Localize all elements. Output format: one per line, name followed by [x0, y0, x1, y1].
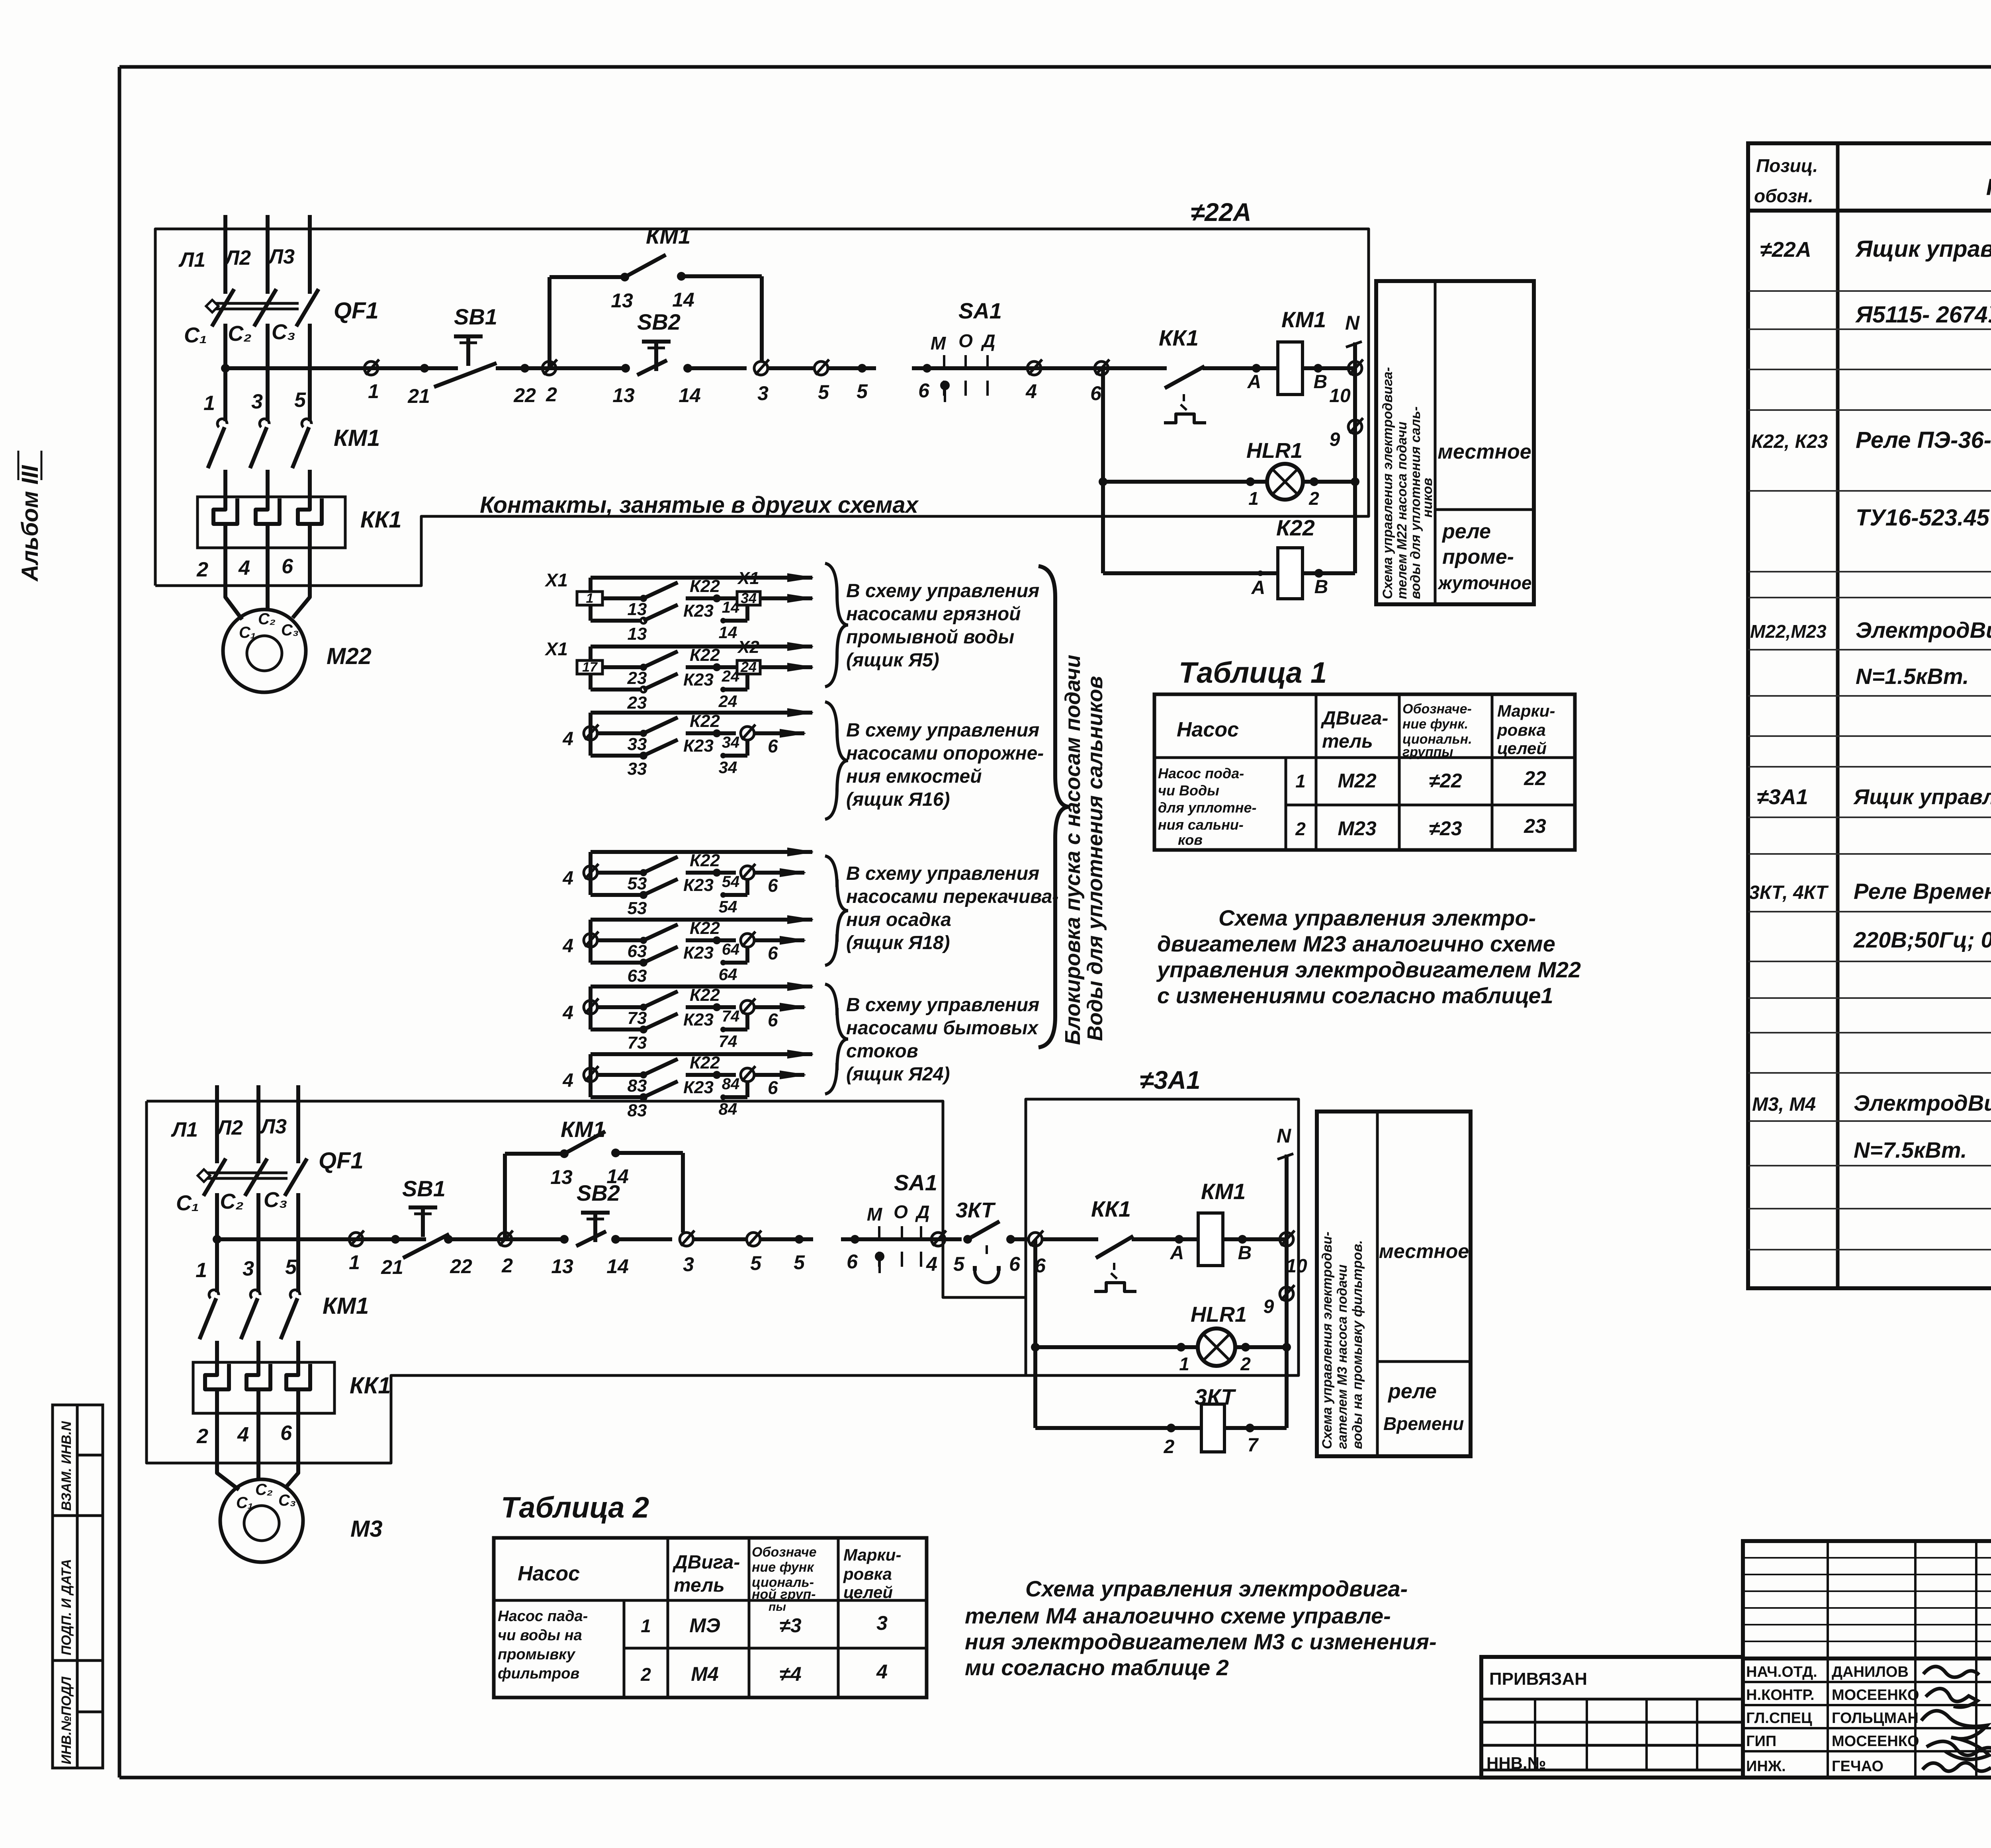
- brace groups 53/63: [825, 856, 848, 965]
- signal lamp HLR1: [1103, 439, 1359, 509]
- wire group 13 top output: [591, 574, 813, 582]
- svg-text:КМ1: КМ1: [561, 1117, 605, 1142]
- svg-text:C₂: C₂: [228, 322, 252, 346]
- svg-text:МОСЕЕНКО: МОСЕЕНКО: [1832, 1733, 1919, 1750]
- node 13 (SB2): [612, 364, 635, 406]
- svg-text:К22: К22: [690, 1053, 720, 1072]
- svg-text:74: 74: [719, 1032, 737, 1051]
- pushbutton SB2 (start): [637, 309, 681, 375]
- svg-text:телем М4 аналогично схеме упра: телем М4 аналогично схеме управле-: [965, 1603, 1391, 1628]
- svg-text:SB2: SB2: [637, 309, 681, 334]
- svg-text:SA1: SA1: [894, 1170, 937, 1195]
- relay contact K22 53: [621, 851, 739, 893]
- terminal 6 (group 33): [741, 725, 806, 756]
- svg-text:1: 1: [1248, 488, 1259, 509]
- svg-text:ние функ.: ние функ.: [1402, 717, 1468, 732]
- labels 1 3 5 (pole terminals): [203, 389, 306, 415]
- timer coil 3KT: [1035, 1384, 1287, 1457]
- svg-text:≠4: ≠4: [779, 1663, 801, 1685]
- svg-text:N: N: [1345, 312, 1360, 334]
- thermal relay KK1 heaters (circuit 2): [193, 1362, 391, 1413]
- svg-text:N=1.5кВт.: N=1.5кВт.: [1856, 664, 1969, 689]
- svg-text:проме-: проме-: [1442, 545, 1514, 568]
- note: M23 scheme similar to M22: [1156, 905, 1581, 1008]
- svg-text:ПРИВЯЗАН: ПРИВЯЗАН: [1489, 1669, 1587, 1689]
- svg-text:4: 4: [562, 1070, 573, 1091]
- pushbutton SB2 (c2): [576, 1180, 620, 1246]
- svg-text:2: 2: [1240, 1354, 1251, 1374]
- svg-text:Н.КОНТР.: Н.КОНТР.: [1746, 1687, 1815, 1703]
- svg-text:телем М22 насоса подачи: телем М22 насоса подачи: [1394, 422, 1410, 599]
- spec row: box #22A: [1760, 236, 1991, 328]
- svg-text:5: 5: [857, 380, 868, 402]
- svg-text:54: 54: [722, 873, 740, 891]
- terminal 4 (group 63): [562, 932, 621, 957]
- svg-text:ников: ников: [1420, 478, 1435, 518]
- svg-text:84: 84: [722, 1075, 740, 1093]
- wire group 73 left rail: [589, 987, 593, 1029]
- svg-text:ровка: ровка: [843, 1565, 892, 1583]
- svg-text:КК1: КК1: [1159, 325, 1199, 350]
- spec row: box #3A1: [1757, 782, 1991, 809]
- wire group 23 top output: [591, 643, 813, 651]
- annotation: to tank emptying pumps (box Я16): [846, 720, 1044, 810]
- svg-text:В: В: [1314, 371, 1328, 393]
- svg-text:К23: К23: [683, 943, 714, 963]
- svg-text:4: 4: [926, 1253, 937, 1275]
- svg-text:73: 73: [628, 1008, 647, 1028]
- svg-text:Блокировка пуска с насосам: Блокировка пуска с насосам подачи: [1061, 655, 1085, 1045]
- svg-text:≠22: ≠22: [1429, 770, 1462, 792]
- specification table grid: [1748, 143, 1991, 1288]
- svg-text:13: 13: [612, 384, 635, 406]
- contactor coil KM1 (c2): [1198, 1179, 1246, 1266]
- wire group 23 left rail: [589, 647, 593, 690]
- left margin stamp boxes (ВЗАМ.ИНВ.N / ПОДП. И ДАТА / ИНВ.№ПОДЛ): [53, 1405, 103, 1768]
- svg-text:Контакты, занятые в других схе: Контакты, занятые в других схемах: [480, 492, 919, 518]
- labels 2 4 6 (KK1 output): [196, 555, 293, 581]
- svg-text:C₂: C₂: [220, 1190, 244, 1213]
- svg-text:Насос пода-: Насос пода-: [1158, 765, 1244, 781]
- svg-text:13: 13: [611, 289, 633, 312]
- svg-text:33: 33: [628, 735, 647, 754]
- svg-text:2: 2: [640, 1664, 651, 1685]
- svg-text:63: 63: [628, 942, 647, 961]
- svg-text:X1: X1: [737, 568, 759, 588]
- table 1: [1154, 694, 1575, 850]
- wire group 53 left rail: [589, 852, 593, 895]
- brace groups 13/23: [825, 563, 848, 687]
- svg-text:КК1: КК1: [1091, 1196, 1131, 1221]
- svg-text:К22: К22: [690, 645, 720, 665]
- wire control line c2 segment 1: [217, 1237, 426, 1241]
- svg-text:К23: К23: [683, 670, 714, 690]
- spec row: time relays 3KT 4KT: [1749, 856, 1991, 957]
- svg-text:Ящик управления: Ящик управления: [1855, 236, 1991, 262]
- svg-text:C₃: C₃: [264, 1188, 288, 1212]
- svg-text:ДАНИЛОВ: ДАНИЛОВ: [1832, 1664, 1909, 1680]
- wire KK1 to motor M22: [225, 548, 310, 619]
- wire poles to KM1 (circuit 2): [217, 1239, 298, 1292]
- svg-text:C₃: C₃: [278, 1492, 296, 1509]
- wire control line segment 2: [496, 364, 627, 373]
- svg-text:Альбом III: Альбом III: [17, 465, 43, 582]
- svg-text:ние функ: ние функ: [752, 1560, 814, 1575]
- annotation: to sludge transfer pumps (box Я18): [846, 863, 1058, 953]
- svg-text:2: 2: [1308, 488, 1319, 509]
- svg-text:34: 34: [722, 734, 740, 751]
- svg-text:М22: М22: [327, 643, 372, 669]
- annotation: to dirty wash water pumps (box Я5): [846, 580, 1039, 671]
- svg-text:Д: Д: [915, 1201, 929, 1222]
- svg-text:Марки-: Марки-: [843, 1545, 901, 1564]
- wire KK1 contact to KM1 coil: [1203, 364, 1278, 393]
- node 5 (c2): [794, 1235, 805, 1274]
- node control tap (circuit 2): [213, 1235, 221, 1244]
- svg-text:14: 14: [679, 384, 701, 406]
- svg-text:3: 3: [757, 382, 769, 404]
- svg-text:Л2: Л2: [223, 246, 251, 270]
- svg-text:насосами опорожне-: насосами опорожне-: [846, 743, 1044, 764]
- svg-text:Позиц.: Позиц.: [1756, 155, 1818, 176]
- svg-text:М: М: [931, 333, 947, 354]
- wire feeder L3: [308, 215, 312, 293]
- svg-text:5: 5: [285, 1256, 297, 1279]
- svg-text:М3: М3: [350, 1516, 383, 1542]
- svg-text:4: 4: [562, 868, 573, 889]
- label #22A: [1191, 198, 1252, 227]
- contactor KM1 main contacts (circuit 2): [199, 1290, 369, 1342]
- svg-text:Л2: Л2: [215, 1116, 243, 1139]
- svg-text:Ящик управления Я5115-3274УХ: Ящик управления Я5115-3274УХЛ4: [1853, 785, 1991, 809]
- svg-text:≠3А1: ≠3А1: [1140, 1066, 1201, 1094]
- svg-text:1: 1: [1179, 1354, 1189, 1374]
- brace group 33: [825, 702, 848, 819]
- svg-text:реле: реле: [1441, 520, 1491, 543]
- svg-text:6: 6: [1009, 1253, 1021, 1275]
- svg-text:пы: пы: [769, 1600, 786, 1614]
- svg-text:КМ1: КМ1: [334, 425, 380, 451]
- relay coil K22: [1103, 515, 1355, 599]
- labels C1 C2 C3 (circuit 2): [176, 1188, 288, 1215]
- labels 1 3 5 (circuit 2 poles): [196, 1256, 297, 1282]
- svg-text:2: 2: [501, 1254, 513, 1277]
- node 21 (c2): [381, 1235, 403, 1278]
- svg-text:≠22А: ≠22А: [1760, 238, 1811, 262]
- terminal 6 (group 73): [741, 998, 806, 1030]
- svg-text:≠3: ≠3: [779, 1614, 801, 1637]
- svg-text:5: 5: [953, 1253, 965, 1275]
- svg-text:КМ1: КМ1: [323, 1293, 369, 1319]
- svg-text:2: 2: [1164, 1436, 1175, 1457]
- node 14 (SB2): [679, 364, 747, 406]
- node 5: [857, 364, 868, 402]
- svg-text:Схема управления электродвига-: Схема управления электродвига-: [1380, 367, 1395, 599]
- cabinet box #22A outline: [155, 229, 1369, 586]
- svg-text:чи воды на: чи воды на: [498, 1627, 582, 1644]
- node 14 (c2): [606, 1235, 672, 1278]
- svg-text:В: В: [1314, 576, 1328, 598]
- svg-text:1: 1: [586, 591, 594, 606]
- svg-text:ДВига-: ДВига-: [1320, 708, 1388, 729]
- svg-text:с изменениями согласно таблице: с изменениями согласно таблице1: [1157, 983, 1553, 1008]
- svg-text:C₃: C₃: [272, 320, 295, 344]
- svg-text:МЭ: МЭ: [689, 1614, 720, 1637]
- svg-text:М: М: [867, 1204, 883, 1225]
- table 2: [494, 1538, 927, 1698]
- svg-text:В схему управления: В схему управления: [846, 994, 1039, 1016]
- svg-text:1: 1: [1295, 771, 1306, 791]
- svg-text:Реле ПЭ-36-180У3, 220В, 50Гц,: Реле ПЭ-36-180У3, 220В, 50Гц,: [1856, 427, 1991, 453]
- svg-text:≠22А: ≠22А: [1191, 198, 1252, 227]
- svg-text:X2: X2: [737, 637, 759, 657]
- svg-text:54: 54: [719, 897, 737, 916]
- svg-text:6: 6: [1090, 382, 1102, 404]
- svg-text:КК1: КК1: [350, 1373, 391, 1399]
- svg-text:34: 34: [719, 758, 737, 777]
- terminal 3: [754, 359, 814, 404]
- svg-text:КМ1: КМ1: [646, 223, 690, 248]
- svg-text:2: 2: [196, 1425, 208, 1448]
- wire KM1 to KK1: [225, 470, 310, 497]
- svg-text:Насос: Насос: [1177, 718, 1239, 741]
- svg-text:стоков: стоков: [846, 1041, 918, 1062]
- svg-text:2: 2: [1295, 819, 1306, 839]
- svg-text:22: 22: [1524, 767, 1546, 789]
- wire branch from terminal 6 down (c2): [1031, 1239, 1040, 1428]
- svg-text:ИНВ.№ПОДЛ: ИНВ.№ПОДЛ: [59, 1676, 74, 1764]
- svg-text:4: 4: [562, 1002, 573, 1024]
- left margin label: Альбом III: [17, 451, 43, 582]
- svg-text:НАЧ.ОТД.: НАЧ.ОТД.: [1746, 1664, 1817, 1680]
- svg-text:X1: X1: [544, 570, 568, 590]
- svg-text:М3, М4: М3, М4: [1752, 1094, 1816, 1115]
- wire KK1 to motor M3: [217, 1413, 298, 1490]
- svg-text:5: 5: [294, 389, 306, 412]
- svg-text:C₁: C₁: [236, 1494, 253, 1512]
- contactor KM1 main contacts: [208, 419, 380, 471]
- wire control line c2 segment 2: [444, 1235, 566, 1244]
- terminal 5: [814, 359, 876, 403]
- svg-text:17: 17: [582, 660, 598, 675]
- svg-text:КМ1: КМ1: [1281, 307, 1326, 332]
- svg-text:тель: тель: [1322, 731, 1373, 752]
- terminal 4 (group 33): [562, 725, 621, 750]
- svg-text:13: 13: [628, 600, 647, 619]
- labels 2 4 6 (circuit 2): [196, 1422, 292, 1448]
- svg-text:14: 14: [719, 623, 737, 642]
- svg-text:Времени: Времени: [1383, 1413, 1464, 1434]
- svg-text:ГОЛЬЦМАН: ГОЛЬЦМАН: [1832, 1710, 1919, 1727]
- motor M22: [223, 609, 372, 692]
- svg-text:6: 6: [768, 943, 778, 963]
- svg-text:КМ1: КМ1: [1201, 1179, 1246, 1204]
- svg-text:23: 23: [627, 668, 647, 688]
- wire feeder L2: [266, 215, 270, 293]
- signal lamp HLR1 (c2): [1035, 1303, 1291, 1374]
- svg-text:4: 4: [876, 1660, 888, 1683]
- wire KM1 coil to N: [1303, 364, 1355, 393]
- thermal contact KK1 (control): [1159, 325, 1206, 423]
- svg-text:ровка: ровка: [1497, 721, 1546, 739]
- svg-text:двигателем М23 аналогично схем: двигателем М23 аналогично схеме: [1157, 931, 1555, 956]
- svg-text:местное: местное: [1379, 1240, 1469, 1262]
- svg-text:83: 83: [628, 1101, 647, 1120]
- svg-text:2: 2: [196, 558, 208, 581]
- svg-text:М4: М4: [691, 1663, 718, 1685]
- svg-text:Обозначе: Обозначе: [752, 1545, 817, 1560]
- svg-text:К22: К22: [690, 985, 720, 1005]
- terminal 6 (group 83): [741, 1066, 806, 1098]
- svg-text:Реле Времени ВЛ-64УХЛ4; Т;: Реле Времени ВЛ-64УХЛ4; Т;: [1854, 879, 1991, 904]
- selector switch SA1 (c2): [867, 1170, 937, 1273]
- svg-text:34: 34: [741, 590, 757, 606]
- wire poles QF1 to KM1: [225, 368, 310, 421]
- heading Таблица 2: [501, 1491, 649, 1524]
- wire control line segment 1: [225, 366, 458, 370]
- svg-text:Л3: Л3: [259, 1115, 287, 1138]
- connector X1 pin box (group 23): [544, 639, 621, 675]
- svg-text:14: 14: [606, 1255, 629, 1278]
- svg-text:К22: К22: [690, 918, 720, 938]
- svg-text:К23: К23: [683, 1010, 714, 1029]
- wire KM1 to KK1 (circuit 2): [217, 1341, 298, 1362]
- relay contact K23 83: [591, 1078, 747, 1120]
- svg-text:чи Воды: чи Воды: [1158, 782, 1219, 799]
- svg-text:10: 10: [1329, 385, 1351, 406]
- svg-text:3: 3: [683, 1253, 694, 1276]
- svg-text:Л3: Л3: [267, 245, 295, 268]
- svg-text:4: 4: [562, 936, 573, 957]
- svg-text:Обозначе-: Обозначе-: [1402, 701, 1472, 717]
- svg-text:воды на промывку фильтров.: воды на промывку фильтров.: [1350, 1240, 1365, 1449]
- terminal 6 (group 53): [741, 864, 806, 896]
- svg-text:Схема управления электро-: Схема управления электро-: [1218, 905, 1536, 930]
- terminal 3 (c2): [680, 1231, 747, 1276]
- svg-text:≠23: ≠23: [1429, 817, 1462, 840]
- wire group 83 left rail: [589, 1054, 593, 1097]
- svg-text:C₁: C₁: [239, 624, 256, 641]
- svg-text:C₂: C₂: [258, 610, 276, 628]
- svg-text:6: 6: [918, 379, 930, 402]
- relay contact K22 73: [621, 985, 739, 1028]
- svg-text:управления электродвигателем М: управления электродвигателем М22: [1156, 957, 1581, 982]
- svg-text:ННВ.№: ННВ.№: [1486, 1754, 1546, 1772]
- svg-text:22: 22: [450, 1255, 472, 1278]
- wire KM1 coil to N (c2): [1223, 1235, 1287, 1264]
- svg-text:насосами грязной: насосами грязной: [846, 604, 1021, 625]
- svg-text:1: 1: [349, 1251, 360, 1274]
- svg-text:83: 83: [628, 1076, 647, 1096]
- terminal 4 (group 83): [562, 1066, 621, 1091]
- svg-text:Воды для уплотнения сальнико: Воды для уплотнения сальников: [1083, 676, 1107, 1041]
- svg-text:HLR1: HLR1: [1191, 1303, 1247, 1326]
- svg-text:9: 9: [1263, 1296, 1274, 1317]
- svg-text:6: 6: [768, 875, 778, 896]
- relay contact K23 73: [591, 1010, 747, 1053]
- svg-text:В схему управления: В схему управления: [846, 863, 1039, 884]
- svg-text:промывку: промывку: [498, 1646, 576, 1663]
- svg-text:ков: ков: [1178, 832, 1203, 848]
- svg-text:К22: К22: [1276, 515, 1315, 540]
- svg-text:А: А: [1170, 1242, 1184, 1264]
- svg-text:21: 21: [407, 385, 430, 407]
- svg-text:Таблица 2: Таблица 2: [501, 1491, 649, 1524]
- svg-text:5: 5: [818, 381, 829, 403]
- relay contact K22 33: [621, 711, 739, 754]
- svg-text:53: 53: [628, 899, 647, 918]
- heading Таблица 1: [1179, 656, 1327, 689]
- svg-text:3КТ, 4КТ: 3КТ, 4КТ: [1749, 882, 1829, 903]
- local mode table (circuit 2): [1317, 1112, 1471, 1456]
- connector output box (group 13): [737, 568, 813, 606]
- svg-text:1: 1: [368, 380, 379, 402]
- terminal 6 (group 63): [741, 932, 806, 963]
- svg-text:Схема управления электродви-: Схема управления электродви-: [1320, 1232, 1335, 1449]
- vertical note: Блокировка пуска с насосам подачи воды для уплотнения сальников: [1061, 655, 1107, 1045]
- svg-text:SB1: SB1: [402, 1176, 446, 1201]
- svg-text:гателем М3 насоса подачи: гателем М3 насоса подачи: [1335, 1264, 1350, 1449]
- pushbutton SB1 (stop): [434, 304, 536, 406]
- node 13 (c2): [551, 1235, 573, 1278]
- terminal 4 (group 73): [562, 998, 621, 1024]
- pushbutton SB1 (c2): [402, 1176, 472, 1278]
- svg-text:А: А: [1247, 371, 1261, 393]
- svg-text:3: 3: [876, 1612, 888, 1634]
- svg-text:10: 10: [1286, 1256, 1307, 1277]
- terminal 1 (c2): [349, 1231, 364, 1274]
- svg-text:К22: К22: [690, 711, 720, 731]
- spec row: relays K22 K23: [1751, 352, 1991, 531]
- wire group 13 left rail: [589, 578, 593, 621]
- svg-text:6: 6: [768, 1010, 778, 1030]
- svg-text:21: 21: [381, 1256, 403, 1278]
- svg-text:1: 1: [641, 1616, 651, 1636]
- svg-text:≠3А1: ≠3А1: [1757, 785, 1808, 809]
- svg-text:ГЕЧАО: ГЕЧАО: [1832, 1758, 1883, 1775]
- svg-text:ми согласно таблице 2: ми согласно таблице 2: [965, 1655, 1229, 1680]
- svg-text:6: 6: [282, 555, 293, 578]
- svg-text:ния сальни-: ния сальни-: [1158, 817, 1244, 833]
- wire group 73 top output: [591, 983, 813, 990]
- svg-text:HLR1: HLR1: [1246, 439, 1303, 463]
- svg-text:насосами перекачива-: насосами перекачива-: [846, 886, 1058, 907]
- svg-text:Л1: Л1: [170, 1118, 198, 1141]
- svg-text:6: 6: [847, 1250, 858, 1273]
- svg-text:4: 4: [562, 729, 573, 750]
- svg-text:73: 73: [628, 1033, 647, 1053]
- note: M4 scheme similar to M3: [965, 1576, 1437, 1680]
- svg-text:ной груп-: ной груп-: [752, 1587, 816, 1602]
- terminal 6 (branch): [1090, 359, 1109, 404]
- svg-text:4: 4: [1025, 380, 1037, 402]
- svg-text:целей: целей: [843, 1583, 893, 1602]
- svg-text:К22, К23: К22, К23: [1751, 431, 1828, 452]
- motor M3: [220, 1479, 383, 1562]
- wire KK1 contact to KM1 coil (c2): [1132, 1235, 1199, 1264]
- terminal 9 (c2): [1263, 1285, 1295, 1317]
- wire control line c2 segment 3: [841, 1237, 962, 1241]
- spec row: motors M3 M4: [1752, 1090, 1991, 1162]
- local mode table (circuit 1): [1376, 281, 1534, 604]
- circuit breaker QF1: [206, 289, 378, 368]
- svg-text:Наименование: Наименование: [1986, 174, 1991, 200]
- svg-text:местное: местное: [1438, 440, 1531, 463]
- relay contact K22 63: [621, 918, 739, 961]
- svg-text:ВЗАМ. ИНВ.N: ВЗАМ. ИНВ.N: [59, 1421, 74, 1511]
- terminal 6 (c2 branch): [1029, 1231, 1098, 1277]
- labels L1 L2 L3 (circuit 2): [170, 1115, 287, 1141]
